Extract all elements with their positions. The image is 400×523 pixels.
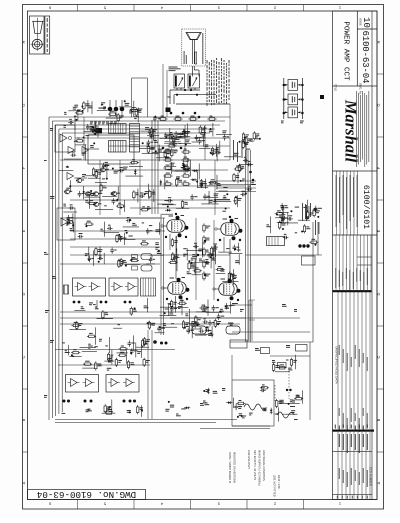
wire [176,88,178,90]
wire [229,104,231,160]
table column [349,292,351,429]
node [167,206,169,208]
svg-text:MAINS SUPPLY (~117V/60Hz): MAINS SUPPLY (~117V/60Hz) [258,450,262,486]
wire [96,300,98,309]
table column [369,432,371,500]
label L95 [45,310,49,313]
wire [160,137,175,139]
label L9 [90,145,94,148]
label L84 [95,307,99,310]
label L26 [155,153,159,154]
resistor R27 [176,178,183,187]
feedback wire [51,121,53,418]
wire [63,211,77,213]
label L53 [87,192,92,195]
resistor R35 [163,157,172,162]
resistor R5 [135,108,141,117]
wire [95,327,97,344]
node [63,400,66,403]
component Z2 [166,108,171,113]
resistor R79 [303,224,310,233]
wire [97,110,108,112]
label L143 [95,346,98,347]
wire [74,115,76,130]
label L141 [250,139,254,142]
wire [216,175,218,190]
capacitor C24 [139,193,145,198]
resistor R6 [211,147,218,156]
capacitor C11 [210,150,216,155]
wire [198,70,200,77]
capacitor C54 [247,186,253,191]
node [184,327,186,329]
label L86 [89,302,93,305]
label L56 [111,192,116,195]
wire [216,187,256,189]
label L17 [130,109,135,110]
label L123 [156,229,161,232]
label L82 [125,230,128,231]
capacitor C20 [69,204,75,209]
psu box [232,380,274,426]
label L108 [192,254,197,257]
table column [361,432,363,500]
valve V6 [213,278,241,300]
label L44 [64,112,67,115]
label L25 [173,139,178,142]
label L154 [62,413,66,414]
label L130 [234,153,239,156]
wire [146,263,155,265]
label L162 [208,333,213,336]
date sub-box [357,256,372,258]
resistor R95 [119,346,128,351]
resistor R29 [158,116,167,121]
table column [356,235,358,290]
node [78,301,81,304]
wire [174,306,189,308]
node [82,110,84,112]
svg-text:AND SIGNAL CONDITION: AND SIGNAL CONDITION [262,450,266,481]
label L119 [178,306,183,309]
wire [204,179,206,189]
label L55 [104,205,107,206]
node [184,89,186,91]
resistor R34 [181,149,190,154]
wire [74,309,85,311]
svg-text:A: A [21,481,26,484]
wire [75,137,230,139]
resistor R110 [278,364,287,369]
transistor Q1 [85,192,94,196]
note text J201 not fitted [273,475,282,497]
wire [52,120,225,122]
label L92 [50,196,54,199]
wire [176,256,178,271]
wire [287,213,289,226]
resistor R61 [168,259,177,264]
divider [333,494,373,496]
wire [196,311,210,313]
wire [77,110,79,121]
wire [237,195,239,207]
capacitor C21 [119,167,125,172]
wire [111,350,113,365]
issue box divider [357,28,377,30]
resistor R46 [140,240,149,245]
switch row labels [90,122,117,125]
node [283,112,286,115]
driver module M4 [106,375,139,393]
label L148 [99,339,102,342]
resistor R32 [207,116,216,121]
label L195 [262,408,266,411]
resistor R73 [235,196,242,205]
resistor R86 [83,361,92,366]
resistor R23 [200,179,206,188]
capacitor C1 [86,124,93,130]
resistor R66 [230,273,236,282]
node [226,193,228,195]
label L91 [44,160,47,161]
zone tick [303,5,305,12]
wire [109,145,230,147]
resistor R33 [163,149,172,154]
capacitor C50 [199,328,205,333]
node [109,406,111,408]
label L50 [66,167,69,168]
label L34 [209,129,212,132]
label L62 [181,167,185,168]
wire [238,254,240,264]
wire [68,110,80,112]
node [129,219,131,221]
label L168 [279,400,284,403]
label L185 [292,400,295,403]
wire [162,64,164,117]
svg-text:DWG.No. 6100-63-04: DWG.No. 6100-63-04 [36,489,136,500]
node [301,84,304,87]
capacitor C53 [186,328,193,334]
note text column [211,60,212,105]
label L27 [205,144,209,147]
label L113 [163,323,166,326]
node [100,301,103,304]
wire [92,250,94,266]
wire [162,204,176,206]
resistor R109 [290,358,297,367]
wire [193,66,195,70]
resistor R103 [199,305,208,310]
capacitor C72 [157,326,165,332]
resistor R63 [193,267,202,272]
wire [178,136,189,138]
note text FOR USA ONLY [247,450,266,486]
wire [140,345,142,358]
label L57 [145,191,149,194]
capacitor C56 [247,161,253,166]
wire [203,126,205,137]
svg-text:6100-63-04: 6100-63-04 [360,31,370,84]
resistor R94 [143,337,150,346]
label L138 [313,209,316,212]
node [129,411,131,413]
node [165,137,167,139]
zone tick [77,500,79,510]
zone tick [23,136,28,138]
node [162,147,165,150]
capacitor C37 [107,225,113,230]
label L120 [165,309,169,310]
label L161 [220,309,224,312]
capacitor C29 [190,194,197,200]
node [116,199,118,201]
capacitor C31 [67,215,73,221]
bus wire [55,419,237,421]
wire [214,160,216,215]
node [196,181,198,183]
node [155,150,157,152]
connector CON3 [130,124,140,153]
resistor R77 [279,221,286,230]
node [211,254,213,256]
wire [171,137,186,139]
node [125,265,127,267]
wire [306,200,308,213]
node [317,216,319,218]
label L78 [129,236,133,237]
wire [249,319,255,321]
svg-text:6100/6101: 6100/6101 [361,185,371,229]
node [190,89,192,91]
resistor R62 [171,238,178,247]
wire [89,134,99,136]
label L122 [155,242,159,245]
capacitor C73 [260,387,266,392]
node [180,136,182,138]
resistor R89 [127,360,134,369]
projection symbol box [30,16,45,54]
wire [95,181,107,183]
table column [346,235,348,290]
bus wire [309,342,311,420]
capacitor C67 [212,305,219,311]
label L16 [103,107,106,110]
wire [160,315,177,317]
wire [125,175,143,177]
capacitor C40 [146,228,152,234]
capacitor C7 [168,134,174,139]
node [244,137,246,139]
bus wire [55,422,216,424]
wire [181,298,183,316]
wire [189,162,191,176]
wire [157,203,173,205]
note text column [219,62,220,104]
signal wire [154,120,156,214]
component Z1 [96,128,102,134]
wire [231,355,233,380]
svg-text:DWG. No.: DWG. No. [359,83,363,95]
resistor R88 [87,333,96,338]
label L67 [147,206,151,209]
resistor R92 [71,349,80,354]
svg-text:10: 10 [361,17,371,28]
label L117 [186,324,189,327]
label L127 [242,179,245,182]
wire [70,217,165,219]
wire [139,160,141,215]
wire [109,112,111,118]
wire [248,300,250,341]
node [249,171,252,174]
label L77 [142,222,144,223]
hole data entries [339,345,368,432]
wire [137,108,139,123]
node [176,94,178,96]
note text column [216,58,217,103]
wire [192,274,202,276]
label L30 [222,130,226,133]
table column [341,292,343,429]
label L180 [294,309,297,312]
wire [70,185,245,187]
capacitor C9 [195,135,202,141]
resistor R53 [102,310,108,319]
wire [117,187,119,200]
capacitor C74 [234,404,241,410]
wire [239,163,253,165]
resistor R10 [147,145,155,154]
node [160,342,163,345]
svg-text:C: C [21,355,26,358]
capacitor C48 [190,321,196,327]
label L133 [295,207,299,208]
label L192 [222,388,225,391]
wire [102,195,117,197]
wire [232,398,234,408]
table column [360,235,362,290]
mains rectifier row [108,107,113,112]
wire [191,66,193,77]
wire [162,326,178,328]
grid wire [160,215,162,335]
speaker note text [184,33,204,64]
capacitor C34 [119,236,127,242]
wire [206,196,218,198]
label L54 [82,174,86,177]
capacitor C43 [204,259,210,264]
zone tick [23,388,28,390]
label L163 [185,313,188,316]
capacitor C2 [71,152,77,157]
resistor R18 [100,183,107,192]
wire [124,239,136,241]
node [123,400,126,403]
node [153,340,157,344]
resistor R104 [276,399,283,408]
resistor R96 [104,410,113,415]
wire [270,355,310,357]
wire [218,251,232,253]
mechanical link dashed [274,385,276,401]
resistor R84 [253,131,259,140]
resistor R45 [95,247,103,256]
node [171,306,173,308]
capacitor C5 [68,119,74,124]
wire [74,177,87,179]
node [120,207,122,209]
zone tick [23,73,28,75]
label L126 [246,149,250,150]
label L150 [88,344,93,347]
label L85 [93,304,96,305]
node [94,133,96,135]
svg-text:J201 NOT FITTED: J201 NOT FITTED [273,475,277,497]
label L3 [300,121,304,124]
capacitor C39 [97,255,103,260]
table column [345,292,347,429]
wire [179,143,192,145]
wire [60,317,300,319]
node [191,262,193,264]
label L174 [200,403,204,406]
diode D4 [191,178,197,181]
node [169,303,171,305]
wire [73,222,75,233]
label L135 [281,218,284,221]
wire [212,123,214,137]
label L170 [239,413,243,416]
resistor R68 [188,261,195,270]
resistor R41 [163,181,172,186]
node [240,180,242,182]
wire [186,249,203,251]
label L99 [191,266,196,269]
node [186,298,188,300]
diode D8 [159,180,162,186]
diode D11 [226,401,232,404]
resistor R58 [203,259,209,268]
resistor R14 [83,101,90,110]
node [237,416,239,418]
wire [72,213,74,229]
node [124,301,127,304]
table column [349,432,351,500]
transistor Q4 [100,168,109,172]
table column [353,171,355,235]
wire [197,171,199,188]
transistor Q6 [111,192,120,196]
wire [215,144,217,157]
label L100 [220,269,224,272]
wire [232,331,310,333]
label L73 [70,228,74,231]
wire [68,345,70,356]
wire [204,125,206,160]
power temp box [296,345,308,352]
resistor R78 [309,239,318,244]
resistor R80 [313,208,320,217]
feedback wire [58,129,60,414]
node [217,299,219,301]
label L190 [205,389,209,392]
wire [142,152,156,154]
wire [230,304,252,306]
label L188 [290,406,295,407]
label L61 [214,193,219,196]
wire [123,226,139,228]
